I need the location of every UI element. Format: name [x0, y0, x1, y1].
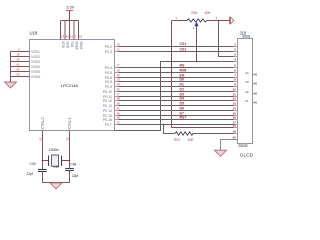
capacitor C40 [38, 169, 47, 171]
microcontroller U18 LPC2148 body [30, 40, 115, 131]
svg-text:P0.14: P0.14 [103, 109, 112, 113]
wire D6 (P0.14 to GLCD header) [115, 110, 234, 112]
wire power drop to pin 43 [64, 21, 66, 40]
svg-text:VSS2: VSS2 [31, 55, 40, 59]
svg-text:3.3V: 3.3V [66, 4, 75, 9]
wire crystal right lead [62, 160, 70, 162]
junction crystal left [42, 160, 44, 162]
J10 pin 17 stub [234, 124, 238, 126]
svg-text:4: 4 [234, 58, 236, 62]
wire R07 to J10 pin 19 [193, 133, 234, 135]
wire RST (P0.16 to GLCD header) [115, 119, 234, 121]
svg-text:J10: J10 [240, 30, 247, 35]
svg-text:35: 35 [117, 88, 121, 92]
J10 pin 1 stub [234, 46, 238, 48]
svg-text:R07: R07 [174, 138, 180, 142]
J10 pin 16 stub [234, 119, 238, 121]
svg-text:12: 12 [232, 97, 236, 101]
svg-text:50: 50 [16, 68, 20, 72]
connector J10 body [238, 39, 253, 144]
svg-text:18: 18 [16, 53, 20, 57]
svg-text:P0.12: P0.12 [103, 99, 112, 103]
J10 pin 10 stub [234, 91, 238, 93]
svg-text:13: 13 [232, 102, 236, 106]
svg-text:D4: D4 [180, 97, 185, 101]
svg-text:VSS5: VSS5 [31, 70, 40, 74]
svg-text:RST: RST [180, 116, 188, 120]
svg-text:V3A: V3A [70, 41, 74, 48]
wire VSS4 pin stub [11, 66, 30, 68]
svg-text:CS2: CS2 [180, 48, 187, 52]
J10 pin 23 stub (no connect) [253, 83, 256, 85]
svg-text:P0.9: P0.9 [105, 85, 112, 89]
svg-text:P0.8: P0.8 [105, 80, 112, 84]
svg-text:41: 41 [117, 107, 121, 111]
wire D0 (P0.8 to GLCD header) [115, 81, 234, 83]
svg-text:P0.3: P0.3 [105, 50, 112, 54]
svg-text:VDD: VDD [61, 41, 65, 49]
wire 3.3V rail [61, 20, 79, 22]
svg-text:2: 2 [234, 48, 236, 52]
svg-text:29: 29 [117, 69, 121, 73]
wire XTAL2 down [42, 131, 44, 170]
J10 pin 4 stub [234, 61, 238, 63]
J10 pin 24 stub (no connect) [253, 74, 256, 76]
svg-text:P0.7: P0.7 [105, 123, 112, 127]
wire D5 (P0.13 to GLCD header) [115, 105, 234, 107]
wire power drop to pin 63 [78, 21, 80, 40]
svg-text:C48: C48 [70, 162, 76, 166]
potentiometer R01 10K body [187, 19, 207, 22]
svg-text:D2: D2 [180, 88, 185, 92]
ground (below J10) [215, 150, 227, 156]
wire VSS bus vertical [10, 52, 12, 83]
svg-text:18: 18 [232, 124, 236, 128]
wire V0 branch (under U18 up to J10 pin 4) [115, 62, 234, 131]
svg-text:10K: 10K [205, 11, 212, 15]
svg-text:P0.5: P0.5 [105, 71, 112, 75]
svg-text:P0.13: P0.13 [103, 104, 112, 108]
wire pot left terminal [172, 20, 188, 22]
svg-text:46: 46 [117, 116, 121, 120]
power symbol 3.3V bar [66, 10, 73, 12]
svg-text:LPC2148: LPC2148 [61, 83, 78, 88]
svg-text:VSS1: VSS1 [31, 50, 40, 54]
J10 pin 8 stub [234, 81, 238, 83]
svg-text:P0.2: P0.2 [105, 45, 112, 49]
J10 pin 21 stub (no connect) [253, 102, 256, 104]
svg-text:34: 34 [117, 83, 121, 87]
svg-text:1: 1 [234, 43, 236, 47]
wire VSS1 pin stub [11, 51, 30, 53]
wire CS2 (P0.3 to J10 pin 2) [115, 51, 234, 53]
J10 pin 5 stub [234, 67, 238, 69]
J10 pin 7 stub [234, 77, 238, 79]
wire D7 (P0.15 to GLCD header) [115, 115, 234, 117]
connector J10 bottom tab [239, 144, 247, 147]
wire VSS5 pin stub [11, 71, 30, 73]
wire pot pin3 down to J10 pin 3 [219, 21, 234, 57]
wire VSS3 pin stub [11, 61, 30, 63]
svg-text:GLCD: GLCD [240, 153, 254, 159]
connector J10 top tab [243, 36, 250, 39]
svg-text:VREF: VREF [74, 41, 78, 50]
wire RS (P0.4 to GLCD header) [115, 67, 234, 69]
J10 pin 3 stub [234, 56, 238, 58]
svg-text:12MHz: 12MHz [49, 148, 60, 152]
svg-text:10E: 10E [188, 138, 195, 142]
svg-text:10: 10 [232, 88, 236, 92]
svg-text:XTAL2: XTAL2 [40, 117, 45, 130]
svg-text:38: 38 [117, 97, 121, 101]
wire 3.3V stem [69, 11, 71, 21]
wire crystal left lead [43, 160, 49, 162]
wire R/W (P0.5 to GLCD header) [115, 72, 234, 74]
svg-text:27: 27 [117, 64, 121, 68]
junction P0.7/R07 branch [163, 124, 165, 126]
svg-text:22pf: 22pf [72, 174, 79, 178]
junction wiper/V0 [196, 61, 198, 63]
svg-text:RS: RS [180, 64, 186, 68]
svg-text:VSSA: VSSA [31, 75, 41, 79]
svg-text:24: 24 [245, 71, 249, 75]
svg-text:P0.16: P0.16 [103, 118, 112, 122]
wire D4 (P0.12 to GLCD header) [115, 100, 234, 102]
svg-text:42: 42 [16, 63, 20, 67]
wire D3 (P0.11 to GLCD header) [115, 96, 234, 98]
svg-text:X19: X19 [53, 165, 59, 169]
J10 pin 22 stub (no connect) [253, 93, 256, 95]
svg-text:C40: C40 [30, 162, 36, 166]
svg-text:31: 31 [117, 121, 121, 125]
svg-text:33: 33 [117, 78, 121, 82]
svg-text:59: 59 [16, 73, 20, 77]
svg-text:21: 21 [245, 99, 249, 103]
crystal X19 12MHz [48, 156, 50, 167]
svg-text:VDD: VDD [65, 41, 69, 49]
svg-text:VBAT: VBAT [79, 41, 83, 50]
J10 pin 14 stub [234, 110, 238, 112]
resistor R07 body [175, 132, 193, 135]
wire pot right terminal [207, 20, 230, 22]
svg-text:39: 39 [117, 102, 121, 106]
J10 pin 15 stub [234, 115, 238, 117]
wire pot pin1 down to J10 pin 18 [172, 21, 234, 128]
svg-text:VSS4: VSS4 [31, 65, 40, 69]
svg-text:CS1: CS1 [180, 42, 187, 46]
wire D2 (P0.10 to GLCD header) [115, 91, 234, 93]
svg-text:25: 25 [16, 58, 20, 62]
wire C48 down [69, 171, 71, 183]
wire C40 down [42, 172, 44, 183]
svg-text:D5: D5 [180, 102, 185, 106]
J10 pin 9 stub [234, 86, 238, 88]
svg-text:D1: D1 [180, 83, 185, 87]
wire power drop to pin 7 [73, 21, 75, 40]
svg-text:19: 19 [232, 130, 236, 134]
svg-text:8: 8 [234, 78, 236, 82]
svg-text:XTAL1: XTAL1 [67, 117, 72, 130]
svg-text:6: 6 [234, 69, 236, 73]
wire P0.7 row down to R07 [164, 125, 176, 134]
wire VSS2 pin stub [11, 56, 30, 58]
junction pot pin3 [218, 20, 220, 22]
J10 pin 2 stub [234, 51, 238, 53]
wire J10 pin 20 to ground [221, 140, 238, 151]
capacitor C48 [65, 168, 74, 170]
svg-text:22pf: 22pf [27, 172, 34, 176]
svg-text:9: 9 [234, 83, 236, 87]
pot wiper arrow [194, 22, 198, 27]
svg-text:P0.4: P0.4 [105, 66, 112, 70]
J10 pin 18 stub [234, 127, 238, 129]
svg-text:D6: D6 [180, 107, 185, 111]
J10 pin 19 stub [234, 133, 238, 135]
svg-text:R01: R01 [192, 11, 198, 15]
svg-text:23: 23 [245, 80, 249, 84]
wire pot wiper down [196, 26, 198, 61]
wire CS1 (P0.2 to J10 pin 1) [115, 46, 234, 48]
wire D1 (P0.9 to GLCD header) [115, 86, 234, 88]
svg-text:22: 22 [245, 90, 249, 94]
wire EN (P0.6 to GLCD header) [115, 77, 234, 79]
svg-text:P0.10: P0.10 [103, 90, 112, 94]
junction crystal right [69, 160, 71, 162]
svg-text:R/W: R/W [180, 69, 188, 73]
ground (left of U18) [5, 82, 17, 88]
wire power drop to pin 23 [60, 21, 62, 40]
svg-text:16: 16 [232, 116, 236, 120]
svg-text:U18: U18 [30, 31, 38, 36]
power flag (right of R01) [229, 17, 231, 25]
J10 pin 20 stub [234, 139, 238, 141]
svg-text:3: 3 [234, 53, 236, 57]
wire VSSA pin stub [11, 76, 30, 78]
wire XTAL1 down [69, 131, 71, 169]
svg-text:14: 14 [232, 107, 236, 111]
J10 pin 11 stub [234, 96, 238, 98]
wire power drop to pin 51 [69, 21, 71, 40]
J10 pin 13 stub [234, 105, 238, 107]
J10 pin 12 stub [234, 100, 238, 102]
svg-text:VSS3: VSS3 [31, 60, 40, 64]
svg-text:5: 5 [234, 64, 236, 68]
wire ground rail [43, 182, 70, 184]
wire P0.7 (P0.7 to GLCD header) [115, 124, 234, 126]
svg-text:D0: D0 [180, 78, 185, 82]
ground (below crystal) [50, 183, 62, 189]
J10 pin 6 stub [234, 72, 238, 74]
